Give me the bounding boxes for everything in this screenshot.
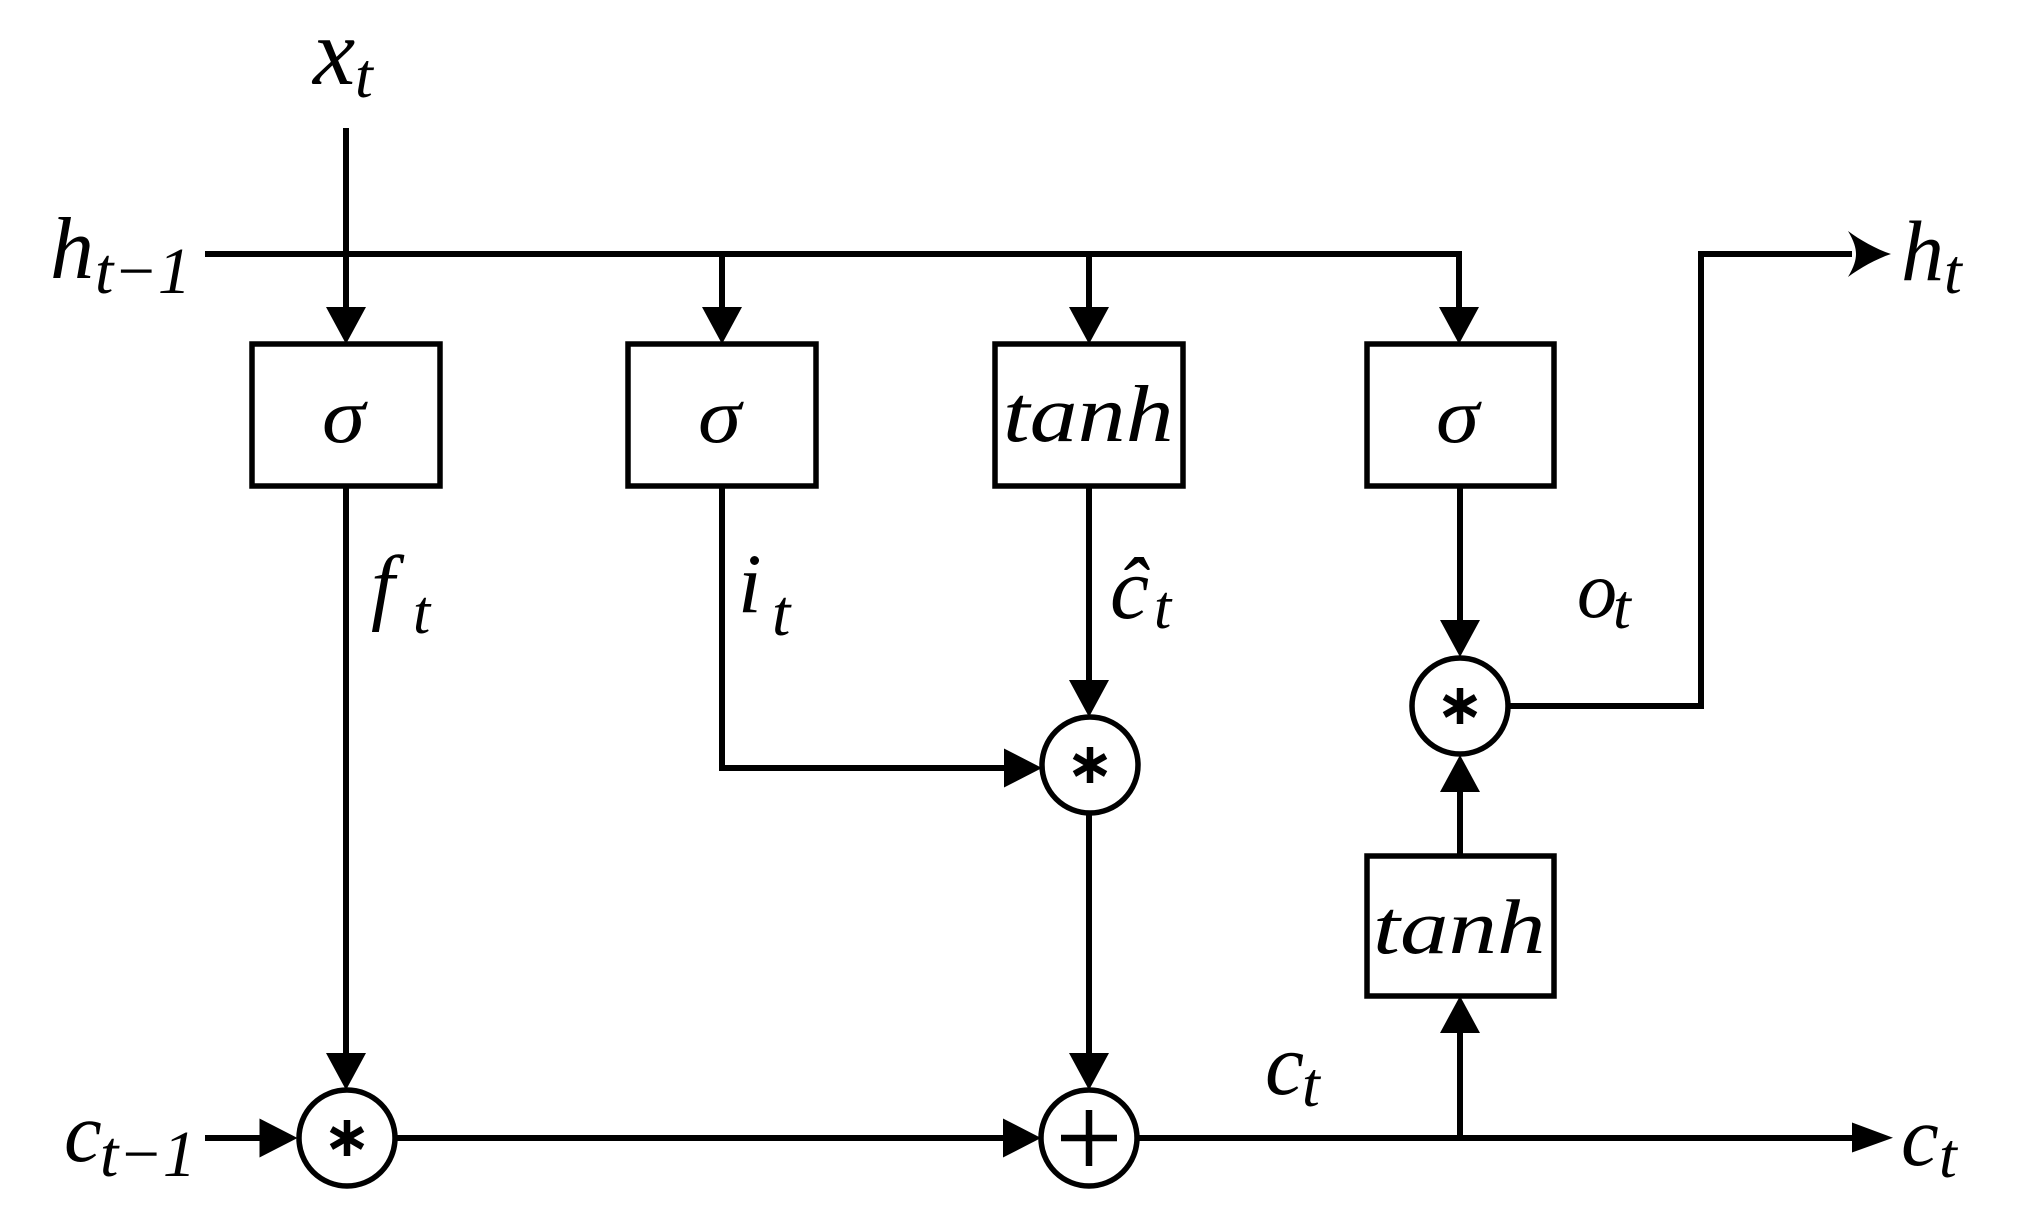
svg-text:h: h <box>50 201 94 298</box>
svg-text:t: t <box>1302 1049 1322 1120</box>
wire f_t vertical <box>343 486 349 1056</box>
wire x_t input vertical <box>343 128 349 312</box>
wire h_t output elbow <box>1508 254 1852 706</box>
box sigma2 (input gate) <box>628 344 816 486</box>
wire h_t-1 horizontal <box>205 251 1459 257</box>
node c_t-1 label <box>64 1086 196 1191</box>
wire c_t-1 input <box>205 1135 264 1141</box>
svg-text:σ: σ <box>698 372 744 459</box>
svg-text:tanh: tanh <box>1373 884 1545 969</box>
svg-text:o: o <box>1577 547 1617 635</box>
node o_t label <box>1577 547 1633 642</box>
svg-text:x: x <box>311 0 355 105</box>
svg-text:t: t <box>1154 574 1173 642</box>
wire up into tanh2 from c line <box>1457 1033 1463 1138</box>
arrowhead into sigma1 <box>326 307 366 344</box>
svg-text:t−1: t−1 <box>100 1118 196 1191</box>
svg-text:t: t <box>1939 1120 1959 1191</box>
svg-text:h: h <box>1901 203 1944 299</box>
box sigma1 (forget gate) <box>252 344 440 486</box>
arrowhead h_t <box>1848 231 1891 277</box>
wire drop to sigma3 <box>1456 251 1462 312</box>
wire c line between products <box>395 1135 1004 1141</box>
op multiply right (output gate product) <box>1412 658 1508 754</box>
node i_t label <box>738 537 792 650</box>
wire o_t vertical <box>1457 487 1463 624</box>
svg-text:c: c <box>64 1086 102 1180</box>
svg-text:ĉ: ĉ <box>1110 541 1150 638</box>
svg-text:σ: σ <box>1436 372 1482 459</box>
svg-text:t: t <box>355 40 375 111</box>
node c-hat label <box>1110 541 1173 642</box>
svg-text:t: t <box>772 577 792 650</box>
svg-text:t: t <box>1613 571 1633 642</box>
wire drop to tanh1 <box>1086 254 1092 312</box>
wire c_t output <box>1137 1135 1853 1141</box>
svg-text:i: i <box>738 537 762 631</box>
op multiply mid (input gate product) <box>1042 717 1138 813</box>
svg-text:c: c <box>1901 1090 1939 1184</box>
box sigma4 (output gate) <box>1367 344 1554 486</box>
node f_t label <box>371 539 432 647</box>
svg-text:tanh: tanh <box>1003 370 1174 459</box>
wire drop to sigma2 <box>719 254 725 312</box>
node h_t label <box>1901 203 1964 307</box>
node x_t label <box>311 0 375 111</box>
box tanh1 (candidate) <box>995 344 1183 486</box>
wire mid product down to plus <box>1086 813 1092 1056</box>
svg-text:t: t <box>413 579 432 647</box>
op multiply left (forget gate product) <box>299 1090 395 1186</box>
node c_t mid label <box>1265 1017 1322 1120</box>
node c_t output label <box>1901 1090 1959 1191</box>
svg-text:t−1: t−1 <box>95 235 191 308</box>
box tanh2 <box>1367 856 1554 996</box>
wire up into right product from tanh2 <box>1457 790 1463 856</box>
wire c-hat vertical <box>1086 487 1092 684</box>
op add <box>1041 1090 1137 1186</box>
wire i_t elbow <box>722 486 1004 768</box>
svg-text:c: c <box>1265 1017 1304 1114</box>
svg-text:σ: σ <box>322 372 368 459</box>
node h_t-1 label <box>50 201 191 308</box>
svg-text:t: t <box>1944 236 1964 307</box>
